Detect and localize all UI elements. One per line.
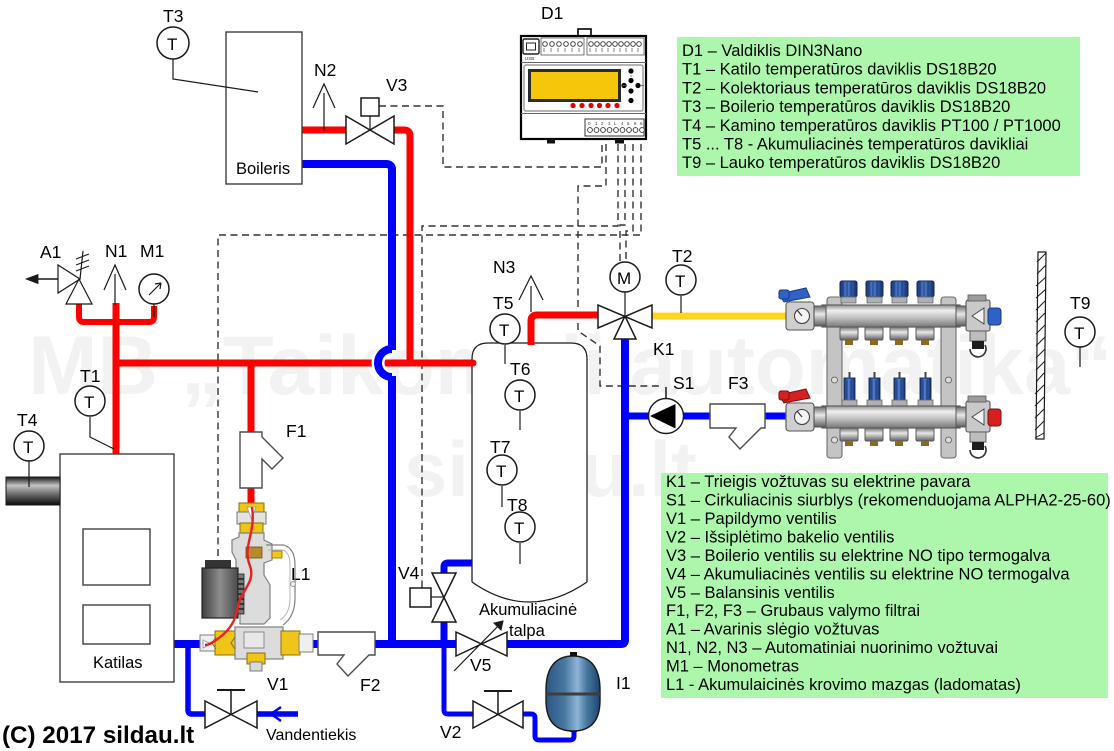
svg-text:T3: T3 xyxy=(163,6,183,26)
svg-text:F1: F1 xyxy=(286,421,306,441)
controller D1 xyxy=(521,3,646,144)
red pipe M1 branch xyxy=(116,306,154,322)
3-way valve K1 xyxy=(598,292,674,359)
svg-text:T5: T5 xyxy=(493,293,513,313)
manifold right top end valve xyxy=(956,295,1001,357)
sensor T9 xyxy=(1065,293,1095,367)
chimney xyxy=(6,477,60,505)
manifold bottom bar xyxy=(822,406,960,428)
D1 nav buttons xyxy=(621,68,640,103)
svg-text:(C) 2017 sildau.lt: (C) 2017 sildau.lt xyxy=(2,722,194,749)
filter F1 xyxy=(240,421,306,488)
svg-text:USB: USB xyxy=(525,56,534,61)
svg-text:T1 – Katilo temperatūros davik: T1 – Katilo temperatūros daviklis DS18B2… xyxy=(682,61,997,79)
svg-text:V4: V4 xyxy=(398,563,420,583)
red pipe boiler loop: Boileris out via V3 down to main xyxy=(302,127,348,134)
sensor T5 xyxy=(490,293,520,364)
svg-text:T2: T2 xyxy=(672,246,692,266)
svg-text:T2 – Kolektoriaus temperatūros: T2 – Kolektoriaus temperatūros daviklis … xyxy=(682,79,1046,97)
red pipe A1 branch xyxy=(79,303,116,322)
svg-text:V5 – Balansinis ventilis: V5 – Balansinis ventilis xyxy=(666,584,835,602)
svg-text:M1 – Monometras: M1 – Monometras xyxy=(666,658,799,676)
svg-text:V1 – Papildymo ventilis: V1 – Papildymo ventilis xyxy=(666,510,837,528)
blue pipe arrow on Vandentiekis xyxy=(271,707,281,721)
sensor T1 xyxy=(75,366,114,449)
L1 pump xyxy=(205,560,231,569)
svg-text:A1 – Avarinis slėgio vožtuvas: A1 – Avarinis slėgio vožtuvas xyxy=(666,621,879,639)
wire D1 to L1 pump xyxy=(218,144,641,566)
svg-text:T: T xyxy=(496,462,506,481)
svg-text:V4 – Akumuliacinės ventilis su: V4 – Akumuliacinės ventilis su elektrine… xyxy=(666,565,1070,583)
valve V4 with thermo head xyxy=(398,563,456,622)
svg-text:N1: N1 xyxy=(105,241,127,261)
expansion vessel I1 xyxy=(546,652,631,732)
filter F3 xyxy=(710,373,765,449)
yellow pipe K1 to manifold xyxy=(652,313,800,320)
svg-text:T7: T7 xyxy=(490,437,510,457)
svg-text:T9 – Lauko temperatūros davikl: T9 – Lauko temperatūros daviklis DS18B20 xyxy=(682,154,1000,172)
L1 side brass screw xyxy=(272,551,282,558)
legend box bottom xyxy=(661,473,1108,698)
red pipe katilas riser xyxy=(113,303,120,455)
svg-text:T5 ... T8 - Akumuliacinės temp: T5 ... T8 - Akumuliacinės temperatūros d… xyxy=(682,136,1028,154)
sensor T2 xyxy=(666,246,696,313)
svg-text:S1 – Cirkuliacinis siurblys (r: S1 – Cirkuliacinis siurblys (rekomenduoj… xyxy=(666,492,1111,510)
Katilas boiler xyxy=(60,454,174,682)
sensor T6 xyxy=(505,359,535,430)
filter F2 xyxy=(318,632,380,695)
svg-text:talpa: talpa xyxy=(509,622,546,640)
svg-text:T: T xyxy=(675,272,685,291)
svg-text:S1: S1 xyxy=(673,373,694,393)
svg-text:V2 – Išsiplėtimo bakelio venti: V2 – Išsiplėtimo bakelio ventilis xyxy=(666,528,894,546)
manifold top bar xyxy=(822,305,960,327)
svg-text:N1, N2, N3 – Automatiniai nuor: N1, N2, N3 – Automatiniai nuorinimo vožt… xyxy=(666,639,998,657)
air vent N3 xyxy=(493,257,543,312)
manifold top unions xyxy=(840,327,934,340)
svg-text:L1: L1 xyxy=(291,564,310,584)
svg-text:T: T xyxy=(514,387,524,406)
wire D1 to V4 xyxy=(422,144,618,588)
svg-text:T: T xyxy=(23,438,33,457)
svg-text:L1 - Akumulaicinės krovimo maz: L1 - Akumulaicinės krovimo mazgas (ladom… xyxy=(666,676,1021,694)
air vent N1 xyxy=(104,241,127,305)
D1 terminal strips top xyxy=(541,38,584,55)
red pipe F1/L1 branch xyxy=(248,363,255,433)
svg-text:M: M xyxy=(617,269,631,288)
svg-text:F3: F3 xyxy=(728,373,748,393)
manifold right bottom end valve xyxy=(956,396,1001,458)
svg-text:D1: D1 xyxy=(541,3,563,23)
sensor T7 xyxy=(487,437,517,507)
svg-text:V3 – Boilerio ventilis su elek: V3 – Boilerio ventilis su elektrine NO t… xyxy=(666,547,1051,565)
svg-text:T: T xyxy=(514,519,524,538)
manifold assembly xyxy=(779,281,1001,458)
red pipe main supply horizontal xyxy=(116,360,473,367)
svg-text:V2: V2 xyxy=(440,722,461,742)
svg-text:T9: T9 xyxy=(1070,293,1090,313)
svg-text:T: T xyxy=(167,35,177,54)
Boileris vessel xyxy=(226,32,302,184)
wire D1 to M actuator pair xyxy=(620,144,633,262)
svg-text:Katilas: Katilas xyxy=(93,654,143,672)
svg-text:N3: N3 xyxy=(493,257,515,277)
svg-text:T4 – Kamino temperatūros davik: T4 – Kamino temperatūros daviklis PT100 … xyxy=(682,117,1061,135)
svg-text:N2: N2 xyxy=(314,60,336,80)
svg-text:V1: V1 xyxy=(267,674,288,694)
D1 LEDs xyxy=(570,103,619,108)
svg-text:V5: V5 xyxy=(470,655,491,675)
valve V3 with thermo head xyxy=(346,75,407,144)
L1 internal red loop xyxy=(205,507,253,645)
D1 display module xyxy=(521,63,646,114)
blue pipe tank bottom to V4 xyxy=(444,563,472,575)
blue pipe main return horizontal xyxy=(174,640,458,648)
sensor T8 xyxy=(505,495,535,564)
actuator M xyxy=(610,262,640,292)
svg-text:M1: M1 xyxy=(140,241,164,261)
blue pipe Boileris return with hop over red xyxy=(378,349,392,377)
manifold bottom flow meters xyxy=(842,372,933,406)
D1 bottom terminal block xyxy=(585,119,644,136)
svg-text:Vandentiekis: Vandentiekis xyxy=(266,727,356,744)
ladomatas L1 xyxy=(200,503,313,671)
tank Akumuliacine talpa xyxy=(472,343,587,602)
blue pipe V2 / I1 expansion branch xyxy=(444,648,475,714)
svg-text:T4: T4 xyxy=(17,410,38,430)
legend box top xyxy=(677,37,1080,176)
red pipe tank to K1 xyxy=(531,315,598,345)
manifold left bottom valve with red lever xyxy=(779,389,826,431)
svg-text:T3 – Boilerio temperatūros dav: T3 – Boilerio temperatūros daviklis DS18… xyxy=(682,98,1010,116)
svg-text:F2: F2 xyxy=(360,675,380,695)
svg-text:V3: V3 xyxy=(386,75,407,95)
air vent N2 xyxy=(313,60,336,131)
svg-text:T: T xyxy=(499,321,509,340)
L1 top brass fitting xyxy=(239,503,264,513)
wire V3 to D1 xyxy=(379,106,602,167)
blue pipe V1 branch Vandentiekis xyxy=(188,646,207,714)
svg-text:A1: A1 xyxy=(40,242,61,262)
svg-text:K1: K1 xyxy=(653,339,674,359)
svg-text:I1: I1 xyxy=(616,673,631,693)
svg-text:Akumuliacinė: Akumuliacinė xyxy=(479,601,577,619)
svg-text:T8: T8 xyxy=(507,495,527,515)
svg-text:F1, F2, F3 – Grubaus valymo fi: F1, F2, F3 – Grubaus valymo filtrai xyxy=(666,602,920,620)
manifold left brackets xyxy=(827,297,842,458)
wire D1 to K1/S1 xyxy=(578,144,662,386)
safety valve A1 xyxy=(26,242,92,304)
manometer M1 xyxy=(139,241,169,317)
svg-text:K1 – Trieigis vožtuvas su elek: K1 – Trieigis vožtuvas su elektrine pava… xyxy=(666,473,971,491)
svg-text:T1: T1 xyxy=(80,366,100,386)
svg-text:D1 – Valdiklis DIN3Nano: D1 – Valdiklis DIN3Nano xyxy=(682,42,862,60)
svg-text:T: T xyxy=(1074,324,1084,343)
blue pipe S1 branch to manifold xyxy=(625,413,790,420)
valve V2 with handle xyxy=(440,691,523,742)
svg-text:T6: T6 xyxy=(510,359,530,379)
sensor T4 xyxy=(14,410,44,487)
balancing valve V5 xyxy=(454,621,507,675)
L1 bottom assembly xyxy=(200,635,216,651)
valve V1 with handle xyxy=(205,674,288,728)
manifold bottom unions xyxy=(840,428,934,441)
svg-text:Boileris: Boileris xyxy=(236,160,290,178)
manifold top blue caps xyxy=(840,281,934,303)
L1 body casting xyxy=(232,533,272,624)
D1 USB port xyxy=(523,39,539,54)
manifold left top valve with blue lever xyxy=(779,288,826,330)
outside wall hatched xyxy=(1035,252,1046,439)
svg-text:T: T xyxy=(84,393,94,412)
pump S1 xyxy=(649,373,695,434)
sensor T3 xyxy=(157,6,258,92)
